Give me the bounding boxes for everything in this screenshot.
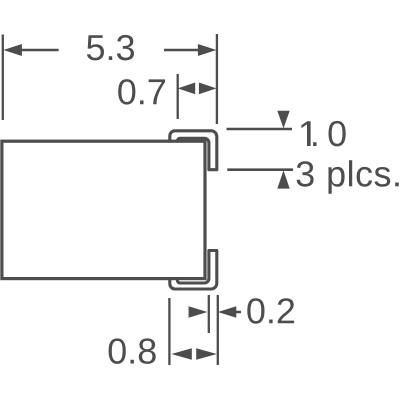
- extension line right (0.2 / 0.8): [217, 295, 219, 365]
- extension line left (0.8): [168, 298, 170, 365]
- dimension 0.2 tail line: [235, 311, 241, 314]
- dimension 5.3 left arrowhead: [3, 44, 22, 56]
- dimension label 0.8: [109, 338, 156, 364]
- extension line left (0.2): [208, 295, 210, 333]
- up arrowhead 3 plcs.: [277, 170, 289, 188]
- terminal clip bottom: [170, 251, 217, 290]
- dimension label 0.2: [247, 298, 294, 324]
- extension line left (0.7): [177, 74, 179, 119]
- dimension 0.8 right arrowhead: [196, 348, 217, 360]
- dimension label 5.3: [87, 35, 134, 61]
- leader line 3 plcs.: [227, 168, 293, 171]
- dimension 0.7 right arrowhead: [199, 83, 217, 95]
- dimension 5.3 line left segment: [20, 49, 59, 52]
- dimension label 0.7: [118, 79, 165, 105]
- down arrowhead 1.0: [277, 111, 289, 129]
- dimension 5.3 right arrowhead: [198, 44, 217, 56]
- dimension 0.7 left arrowhead: [178, 83, 196, 95]
- dimension 5.3 line right segment: [164, 49, 200, 52]
- terminal clip top: [170, 131, 217, 170]
- dimension 0.8 left arrowhead: [171, 348, 192, 360]
- component body outline: [2, 141, 205, 278]
- note label 3 plcs.: [297, 160, 399, 194]
- dimension 0.2 left arrowhead (outside, pointing right): [189, 306, 208, 318]
- dimension 0.2 right arrowhead (outside, pointing left): [218, 306, 237, 318]
- dimension label 1.0: [301, 121, 345, 146]
- extension line right (5.3 / 0.7): [216, 34, 218, 124]
- extension line left (5.3): [2, 35, 4, 121]
- leader line 1.0: [227, 128, 293, 131]
